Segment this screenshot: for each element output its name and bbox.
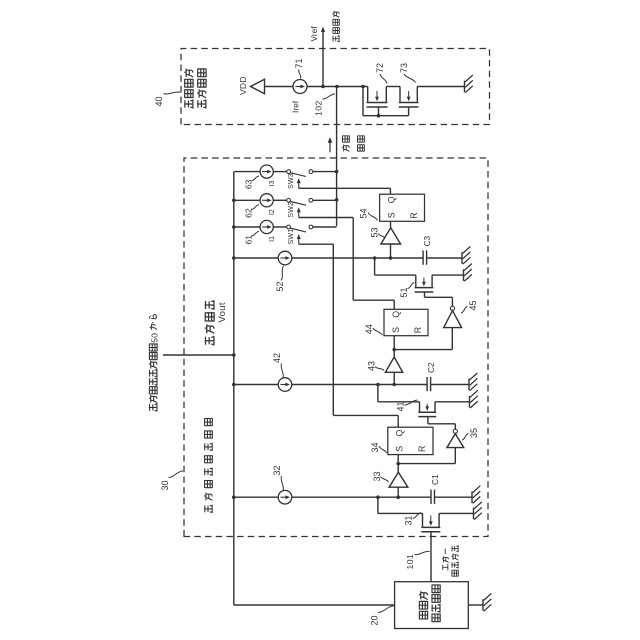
svg-text:C1: C1: [430, 474, 440, 485]
svg-text:Q: Q: [387, 196, 397, 203]
svg-text:42: 42: [272, 353, 282, 363]
svg-text:S: S: [395, 446, 405, 452]
svg-text:43: 43: [366, 361, 376, 371]
svg-text:I1: I1: [269, 236, 276, 242]
svg-text:73: 73: [399, 63, 409, 73]
svg-text:20: 20: [370, 615, 380, 625]
svg-text:C2: C2: [426, 362, 436, 373]
svg-text:VDD: VDD: [238, 76, 248, 95]
svg-text:I3: I3: [269, 180, 276, 186]
svg-text:101: 101: [405, 554, 415, 570]
svg-text:33: 33: [372, 471, 382, 481]
svg-text:Vref: Vref: [309, 26, 319, 42]
svg-text:40: 40: [154, 96, 164, 106]
svg-text:54: 54: [359, 208, 369, 218]
svg-text:SW3: SW3: [288, 173, 295, 189]
svg-text:R: R: [413, 327, 423, 333]
svg-text:I2: I2: [269, 209, 276, 215]
svg-text:35: 35: [469, 428, 479, 438]
svg-text:34: 34: [370, 442, 380, 452]
svg-text:Q: Q: [391, 311, 401, 318]
svg-text:30: 30: [160, 480, 170, 490]
svg-text:72: 72: [375, 63, 385, 73]
svg-text:Q: Q: [395, 430, 405, 437]
svg-text:71: 71: [294, 58, 304, 68]
svg-text:51: 51: [399, 287, 409, 297]
svg-text:102: 102: [314, 100, 324, 116]
svg-text:44: 44: [364, 324, 374, 334]
svg-text:41: 41: [396, 401, 406, 411]
svg-text:45: 45: [468, 300, 478, 310]
svg-text:Vout: Vout: [216, 302, 227, 322]
svg-text:32: 32: [272, 465, 282, 475]
svg-text:31: 31: [404, 515, 414, 525]
svg-text:SW2: SW2: [288, 202, 295, 218]
svg-text:52: 52: [275, 281, 285, 291]
svg-text:R: R: [417, 446, 427, 452]
svg-text:Iref: Iref: [291, 100, 301, 113]
svg-text:50: 50: [149, 333, 159, 343]
svg-text:R: R: [409, 212, 419, 218]
svg-text:SW1: SW1: [288, 229, 295, 245]
svg-text:S: S: [387, 212, 397, 218]
svg-text:53: 53: [370, 227, 380, 237]
svg-text:C3: C3: [422, 235, 432, 246]
svg-text:S: S: [391, 327, 401, 333]
